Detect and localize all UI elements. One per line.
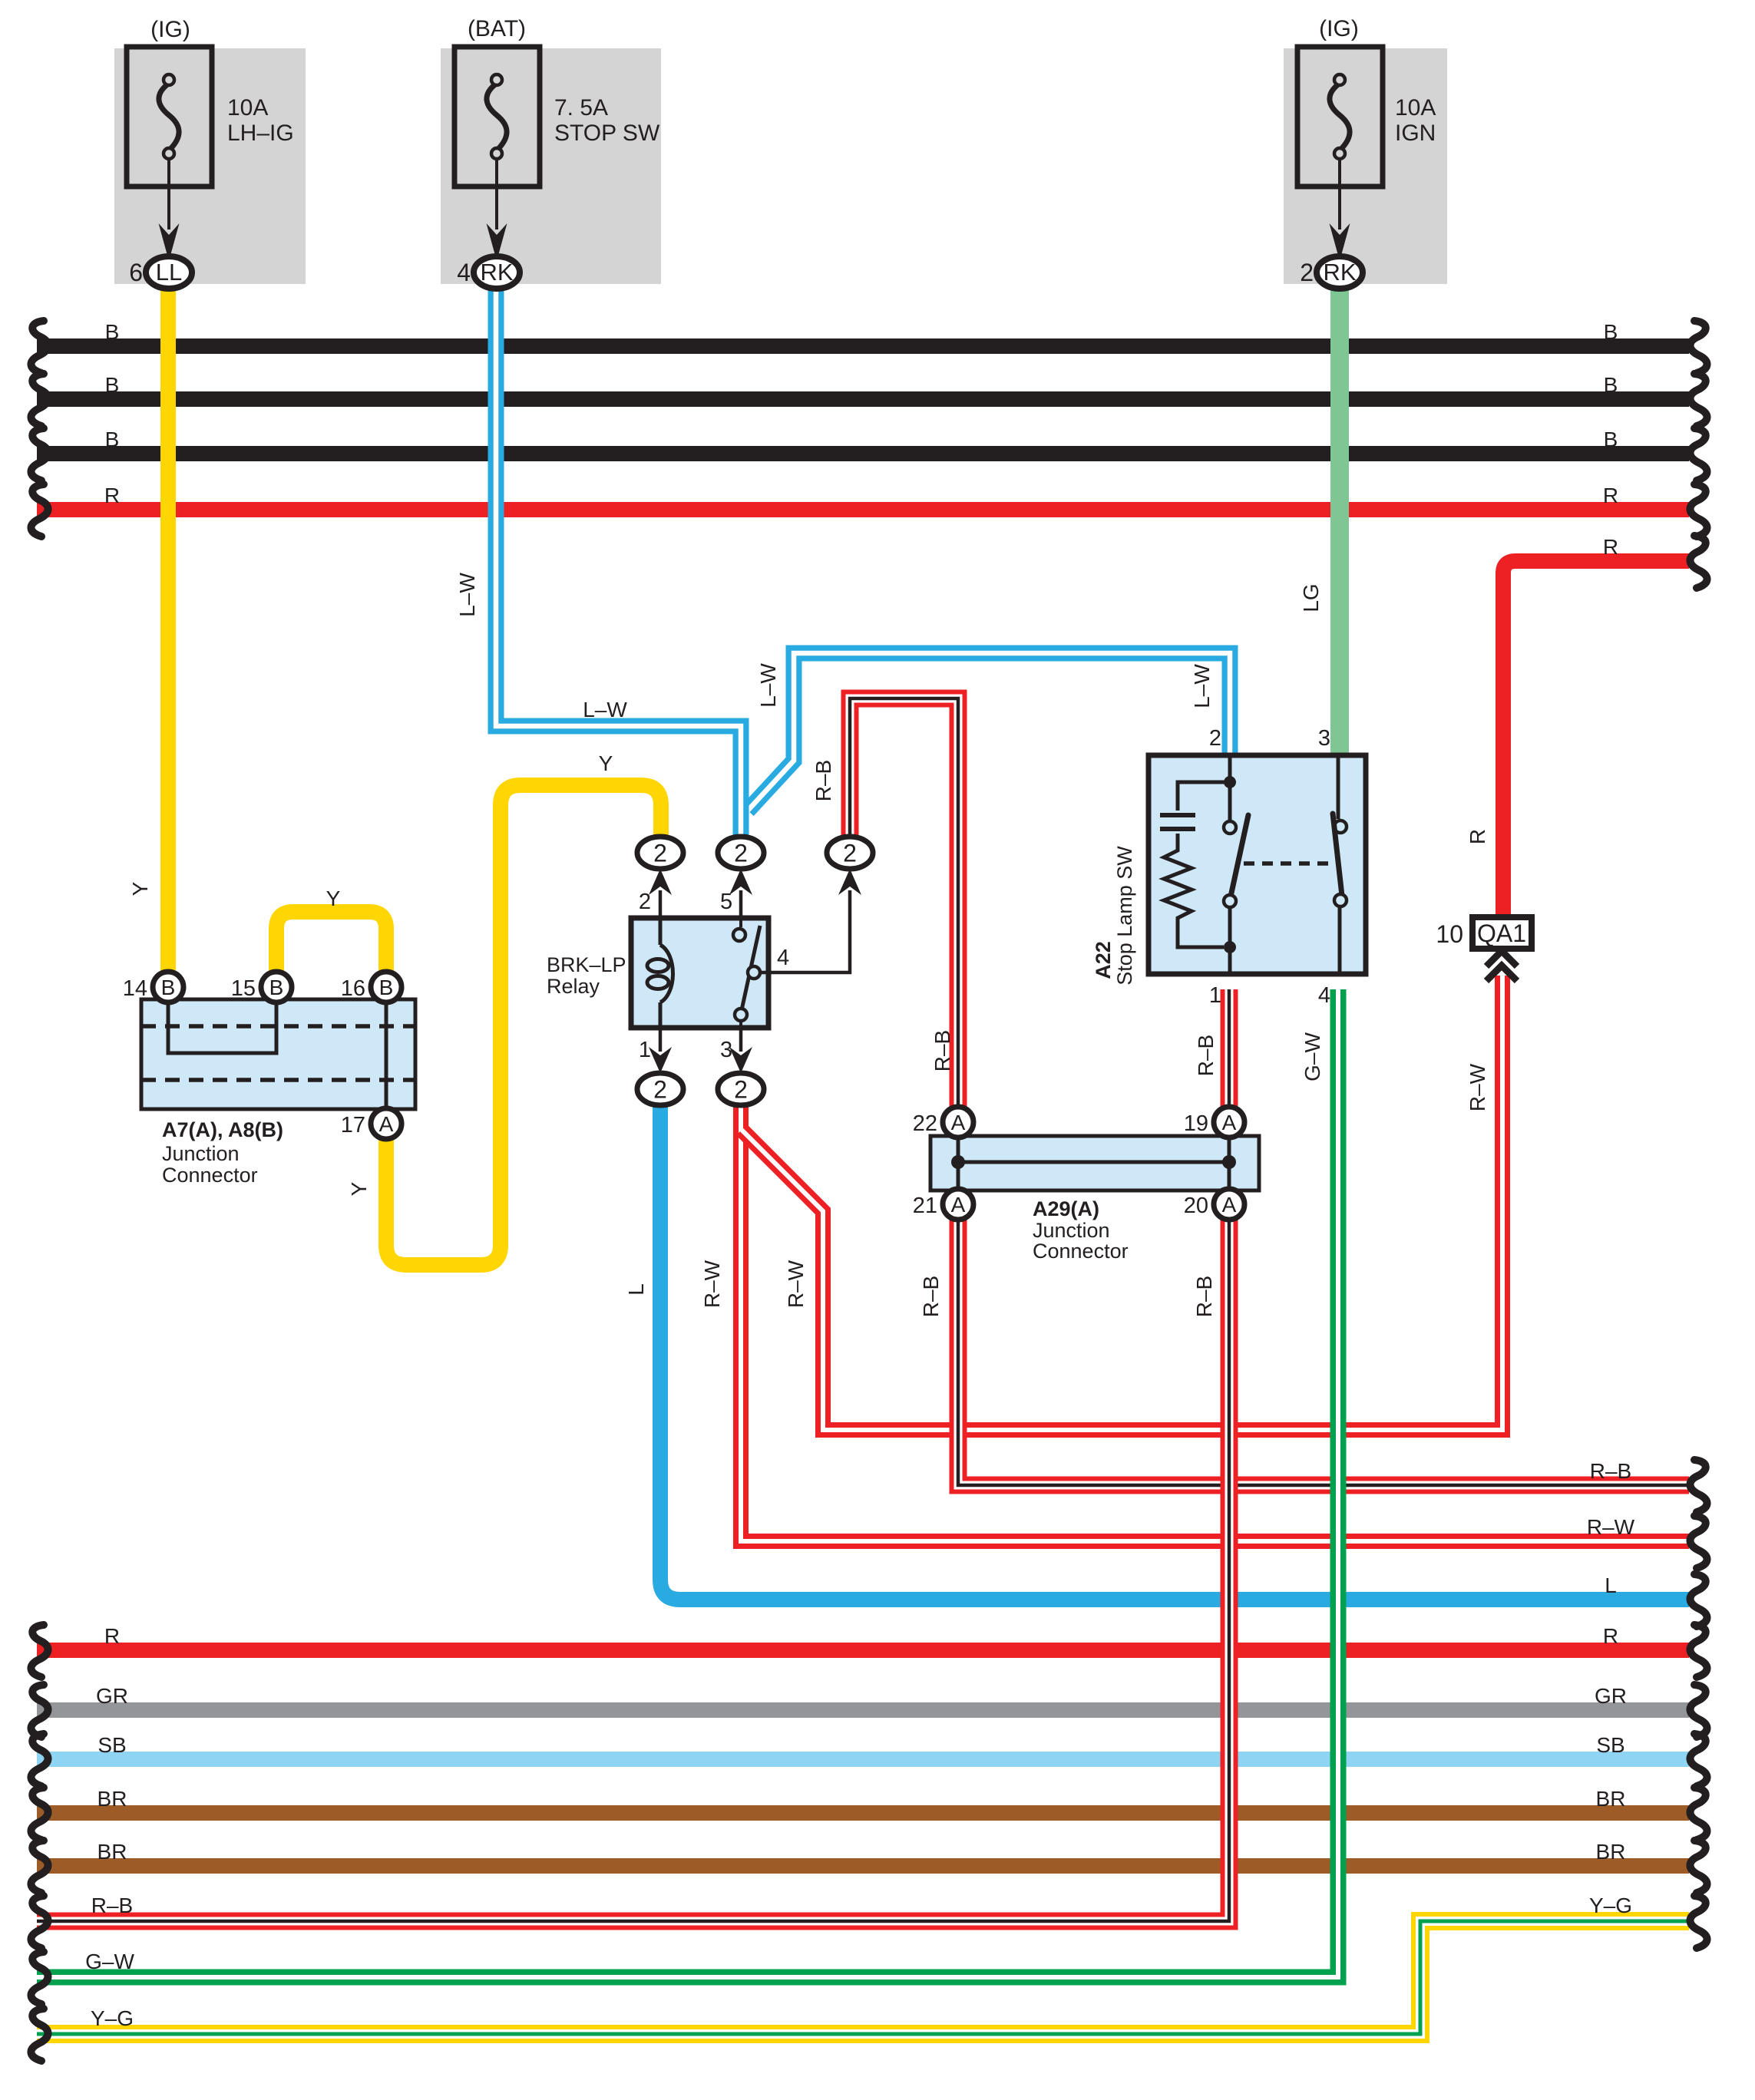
svg-text:Connector: Connector — [162, 1164, 258, 1187]
svg-text:BRK–LP: BRK–LP — [547, 953, 626, 976]
svg-text:L–W: L–W — [455, 573, 479, 617]
svg-text:4: 4 — [1318, 983, 1330, 1008]
svg-text:R–B: R–B — [1194, 1035, 1218, 1076]
svg-text:A7(A), A8(B): A7(A), A8(B) — [162, 1118, 283, 1141]
svg-text:4: 4 — [777, 946, 789, 970]
svg-text:4: 4 — [457, 259, 471, 286]
svg-text:IGN: IGN — [1395, 121, 1436, 146]
svg-text:19: 19 — [1184, 1111, 1208, 1136]
svg-text:R: R — [1603, 1624, 1618, 1648]
svg-text:B: B — [105, 428, 120, 451]
svg-text:BR: BR — [97, 1840, 127, 1864]
svg-text:R: R — [1603, 484, 1618, 507]
svg-text:RK: RK — [480, 259, 513, 286]
svg-text:QA1: QA1 — [1477, 920, 1526, 947]
svg-text:(BAT): (BAT) — [468, 16, 526, 41]
svg-text:R–W: R–W — [1587, 1515, 1635, 1539]
svg-text:L–W: L–W — [1190, 664, 1214, 708]
svg-text:R–B: R–B — [919, 1276, 943, 1317]
svg-text:BR: BR — [1596, 1787, 1626, 1811]
svg-text:15: 15 — [231, 976, 256, 1001]
svg-text:G–W: G–W — [1301, 1032, 1324, 1081]
svg-text:L: L — [1605, 1573, 1617, 1597]
svg-text:L: L — [624, 1283, 648, 1296]
svg-text:Junction: Junction — [1033, 1219, 1110, 1242]
svg-text:20: 20 — [1184, 1194, 1208, 1218]
svg-text:2: 2 — [639, 890, 651, 914]
svg-text:R: R — [104, 1624, 120, 1648]
svg-text:R–W: R–W — [1466, 1063, 1489, 1111]
svg-text:A29(A): A29(A) — [1033, 1197, 1099, 1220]
svg-text:B: B — [1604, 373, 1618, 397]
svg-text:GR: GR — [96, 1684, 128, 1708]
svg-text:RK: RK — [1323, 259, 1356, 286]
svg-text:5: 5 — [720, 890, 732, 914]
svg-text:Stop Lamp SW: Stop Lamp SW — [1113, 846, 1136, 986]
svg-text:1: 1 — [639, 1038, 651, 1062]
svg-text:Junction: Junction — [162, 1142, 240, 1165]
svg-text:17: 17 — [341, 1113, 365, 1137]
svg-text:6: 6 — [129, 259, 143, 286]
svg-text:14: 14 — [123, 976, 147, 1001]
svg-text:10A: 10A — [227, 95, 268, 121]
svg-text:Y–G: Y–G — [91, 2006, 134, 2030]
svg-text:R: R — [1466, 829, 1489, 844]
svg-text:SB: SB — [1596, 1733, 1624, 1757]
svg-text:22: 22 — [913, 1111, 937, 1136]
svg-text:R: R — [1603, 535, 1618, 559]
svg-text:B: B — [105, 320, 120, 344]
svg-text:21: 21 — [913, 1194, 937, 1218]
svg-text:L–W: L–W — [583, 698, 627, 721]
svg-text:Relay: Relay — [547, 975, 600, 998]
svg-text:R–B: R–B — [1192, 1276, 1216, 1317]
svg-text:L–W: L–W — [756, 663, 780, 708]
svg-text:LG: LG — [1299, 583, 1323, 612]
svg-text:(IG): (IG) — [1319, 16, 1359, 41]
svg-text:LL: LL — [156, 259, 182, 286]
svg-text:BR: BR — [1596, 1840, 1626, 1864]
svg-text:3: 3 — [1318, 726, 1330, 751]
svg-text:G–W: G–W — [85, 1950, 134, 1973]
svg-text:Y: Y — [128, 881, 152, 896]
svg-text:R–W: R–W — [784, 1260, 808, 1308]
svg-text:(IG): (IG) — [150, 17, 190, 42]
svg-text:Y: Y — [599, 751, 613, 775]
svg-text:B: B — [1604, 428, 1618, 451]
svg-text:BR: BR — [97, 1787, 127, 1811]
svg-text:R–B: R–B — [930, 1030, 954, 1071]
svg-text:STOP SW: STOP SW — [554, 121, 660, 146]
svg-text:Y–G: Y–G — [1589, 1894, 1632, 1917]
svg-text:10A: 10A — [1395, 95, 1436, 121]
svg-text:16: 16 — [341, 976, 365, 1001]
svg-text:GR: GR — [1595, 1684, 1627, 1708]
svg-text:R–B: R–B — [91, 1894, 133, 1917]
svg-text:3: 3 — [720, 1038, 732, 1062]
svg-text:LH–IG: LH–IG — [227, 121, 294, 146]
svg-text:10: 10 — [1436, 920, 1463, 948]
svg-text:2: 2 — [1300, 259, 1314, 286]
svg-text:SB: SB — [97, 1733, 126, 1757]
svg-text:A22: A22 — [1092, 941, 1115, 979]
svg-text:R–W: R–W — [700, 1260, 724, 1308]
svg-text:2: 2 — [1209, 726, 1221, 751]
svg-text:R: R — [104, 484, 120, 507]
svg-text:7. 5A: 7. 5A — [554, 95, 608, 121]
svg-text:Connector: Connector — [1033, 1240, 1129, 1263]
svg-text:R–B: R–B — [1590, 1459, 1631, 1483]
svg-text:B: B — [105, 373, 120, 397]
svg-text:Y: Y — [347, 1181, 371, 1196]
svg-text:R–B: R–B — [811, 760, 835, 801]
svg-text:1: 1 — [1209, 983, 1221, 1008]
svg-text:B: B — [1604, 320, 1618, 344]
svg-text:Y: Y — [326, 887, 341, 910]
